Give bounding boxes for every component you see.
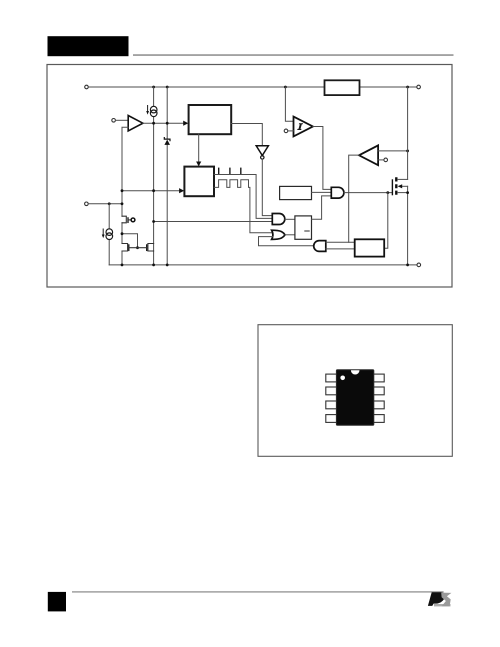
junction bottom rail C xyxy=(166,264,169,267)
junction bottom rail B xyxy=(152,264,155,267)
op-amp U4 xyxy=(294,117,313,137)
wire rail to comparator U4 xyxy=(285,87,293,121)
block C blanking xyxy=(280,186,312,199)
junction top rail A xyxy=(152,86,155,89)
node VIN right terminal xyxy=(417,85,421,89)
zener D1 xyxy=(164,138,170,145)
wire U1 output xyxy=(143,122,184,124)
package pins right xyxy=(373,374,384,422)
node ISENSE terminal xyxy=(284,129,288,133)
junction sense wire xyxy=(152,220,155,223)
wire squarewave to OR1 xyxy=(214,180,272,233)
wire block B input xyxy=(122,190,181,192)
package notch xyxy=(351,370,360,374)
flip-flop U3 pin tick xyxy=(305,230,309,232)
wire U1 feedback input xyxy=(122,127,128,265)
wire current sense to AND2 xyxy=(154,221,273,223)
footer rule xyxy=(72,591,444,592)
wire top rail left xyxy=(88,86,324,88)
junction mirror gates xyxy=(136,246,139,249)
junction top rail C xyxy=(284,86,287,89)
inverter U2 xyxy=(256,146,268,156)
package pins left xyxy=(326,374,337,422)
staircase clock ticks xyxy=(219,168,241,174)
junction mirror A xyxy=(121,232,124,235)
junction block B input B xyxy=(152,189,155,192)
wire U4 output to AND1 xyxy=(313,127,332,190)
junction ADJ B xyxy=(121,202,124,205)
wire bias rail xyxy=(153,87,155,265)
footer page square xyxy=(48,592,66,612)
block A regulator xyxy=(189,105,232,134)
wire comparator U1 input xyxy=(116,119,129,121)
title redaction bar xyxy=(48,36,129,56)
node GND terminal xyxy=(417,263,421,267)
junction block B input A xyxy=(121,189,124,192)
resistor R1 xyxy=(325,80,360,95)
wire ADJ bias leg xyxy=(108,204,110,265)
node U5 ref terminal xyxy=(384,158,388,162)
wire ramp top line to AND2 xyxy=(214,175,272,219)
wire U5 output down xyxy=(349,155,359,242)
junction gate node xyxy=(386,191,389,194)
transistor Q3 xyxy=(122,244,138,252)
transistor Q1 xyxy=(392,177,407,265)
transistor Q2 xyxy=(122,216,131,223)
label I xyxy=(297,123,303,130)
junction bottom rail A xyxy=(121,264,124,267)
node ADJ terminal xyxy=(85,202,89,206)
op-amp U5 xyxy=(359,145,378,165)
wire G3 input upper xyxy=(326,241,355,243)
flip-flop U3 xyxy=(295,216,312,239)
node VIN terminal xyxy=(85,85,89,89)
figure 1 frame xyxy=(47,65,452,288)
junction top rail D xyxy=(406,86,409,89)
wire drain vertical xyxy=(407,87,409,179)
inverter U2 bubble xyxy=(261,156,264,159)
or-gate G1 xyxy=(272,230,285,239)
wire mirror tie xyxy=(122,234,138,248)
junction top rail B xyxy=(166,86,169,89)
transistor Q4 xyxy=(138,244,154,252)
wire U5 ref xyxy=(378,159,384,161)
current source I1 xyxy=(146,106,157,117)
package body xyxy=(336,370,373,426)
wire block A to block B xyxy=(198,134,200,163)
junction U1 out A xyxy=(152,122,155,125)
wire block C output xyxy=(312,191,332,193)
wire U5 input from drain node xyxy=(378,150,408,152)
logo mark xyxy=(428,592,452,606)
block D protection xyxy=(355,239,385,256)
wire G1 lower input from G3 xyxy=(259,237,314,246)
junction ADJ A xyxy=(108,202,111,205)
package pin1 dot xyxy=(340,376,345,381)
header rule xyxy=(133,54,454,56)
wire gate drive xyxy=(344,192,392,194)
junction U1 out B xyxy=(166,122,169,125)
arrowhead into block B left xyxy=(179,188,184,193)
and-gate G2 xyxy=(272,214,285,225)
block B oscillator xyxy=(184,167,214,197)
and-gate G4 xyxy=(331,187,344,198)
wire G3 input lower xyxy=(326,248,355,250)
current source I2 xyxy=(102,229,113,240)
transistor Q2 gate bubble xyxy=(131,218,135,222)
wire gate node to block D xyxy=(384,193,388,249)
wire U3 output to AND1 xyxy=(312,196,332,219)
wire block A output xyxy=(231,124,262,146)
wire bottom rail xyxy=(109,264,417,266)
arrowhead into block A xyxy=(183,121,188,126)
wire G2 output xyxy=(285,218,295,220)
junction source node xyxy=(406,191,409,194)
figure 2 frame xyxy=(258,325,452,457)
and-gate G3 mirrored xyxy=(314,241,326,252)
arrowhead into block B top xyxy=(196,162,201,167)
wire U2 output to AND2 xyxy=(262,159,272,215)
junction drain sense xyxy=(406,150,409,153)
wire ADJ input xyxy=(88,203,122,205)
wire zener rail xyxy=(166,87,168,265)
node EN terminal xyxy=(112,119,116,123)
junction bottom rail D xyxy=(406,264,409,267)
op-amp U1 xyxy=(128,116,143,131)
wire ISENSE to U4 xyxy=(288,130,294,132)
wire G1 output xyxy=(285,234,295,236)
wire top rail right xyxy=(360,86,417,88)
